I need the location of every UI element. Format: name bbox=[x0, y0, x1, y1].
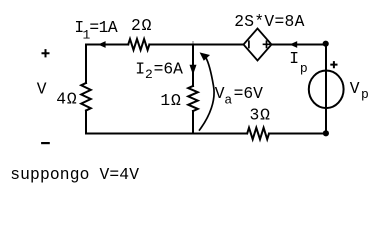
svg-text:V: V bbox=[37, 80, 47, 99]
resistor 1ohm zigzag bbox=[188, 86, 198, 111]
voltage source Vp circle bbox=[309, 71, 344, 109]
dependent source U1 diamond bbox=[244, 29, 272, 61]
svg-text:suppongo V=4V: suppongo V=4V bbox=[10, 165, 139, 184]
wire left vertical lower bbox=[85, 111, 87, 134]
current arrow I2 head bbox=[190, 65, 197, 75]
wire right vertical through source bbox=[325, 44, 327, 134]
svg-text:=6A: =6A bbox=[154, 59, 184, 78]
plus sign Vp polarity bbox=[330, 61, 337, 68]
svg-text:I: I bbox=[289, 49, 299, 68]
svg-text:p: p bbox=[361, 87, 369, 102]
wire middle vertical upper bbox=[192, 45, 194, 87]
svg-text:V: V bbox=[350, 79, 360, 98]
resistor 2ohm zigzag bbox=[128, 39, 149, 50]
svg-text:2: 2 bbox=[145, 67, 153, 82]
resistor 4ohm zigzag bbox=[81, 83, 91, 111]
wire bottom-right segment bbox=[270, 133, 326, 135]
minus mark inside diamond bbox=[248, 41, 250, 47]
resistor 3ohm zigzag bbox=[247, 128, 269, 140]
svg-text:2Ω: 2Ω bbox=[131, 16, 152, 35]
voltage arrow Va head bbox=[200, 52, 210, 60]
svg-text:3Ω: 3Ω bbox=[250, 105, 271, 124]
wire top-left segment bbox=[86, 44, 128, 46]
svg-text:2S*V=8A: 2S*V=8A bbox=[234, 12, 305, 31]
plus sign left (V polarity) bbox=[42, 49, 50, 57]
svg-text:a: a bbox=[224, 93, 232, 108]
plus mark inside diamond bbox=[264, 41, 270, 47]
current arrow Ip head bbox=[290, 41, 298, 48]
wire top-right segment bbox=[272, 44, 327, 46]
wire bottom-left segment bbox=[86, 133, 247, 135]
svg-text:=6V: =6V bbox=[234, 84, 264, 103]
minus sign left (V polarity) bbox=[41, 142, 50, 144]
current arrow I1 head bbox=[98, 41, 106, 48]
wire middle vertical lower bbox=[192, 111, 194, 134]
node dot bottom-right bbox=[323, 130, 329, 136]
svg-text:p: p bbox=[300, 61, 308, 76]
wire stub above middle node bbox=[192, 42, 194, 45]
voltage arrow Va arc bbox=[200, 58, 215, 130]
wire top-middle segment bbox=[149, 44, 243, 46]
svg-text:4Ω: 4Ω bbox=[56, 89, 77, 108]
svg-text:=1A: =1A bbox=[89, 18, 118, 37]
svg-text:I: I bbox=[135, 59, 145, 78]
wire left vertical upper bbox=[85, 45, 87, 84]
svg-text:1Ω: 1Ω bbox=[160, 91, 181, 110]
svg-text:V: V bbox=[215, 84, 225, 103]
node dot top-right bbox=[323, 41, 329, 47]
